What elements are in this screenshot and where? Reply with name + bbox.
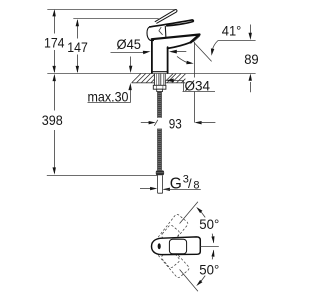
svg-text:41°: 41° (222, 23, 242, 39)
svg-text:147: 147 (67, 39, 88, 55)
deck hatch right (165, 74, 185, 83)
arc 50 lower (198, 276, 205, 285)
ref line B (top of closed lever, y=18.7) (73, 18, 158, 20)
braided hose lower (158, 129, 162, 171)
lever top view dashed upper (149, 213, 189, 257)
G3/8 right arrow (163, 188, 170, 191)
ref line A (top of raised lever, y=8.9) (47, 9, 174, 11)
G3/8 left arrow (140, 188, 151, 190)
top view group (149, 202, 220, 292)
max30 underline (88, 102, 131, 104)
flow angle arc arrow (177, 56, 191, 63)
dimension 89 top arrow (250, 25, 252, 35)
base gasket line (151, 71, 167, 73)
spout top edge (152, 35, 200, 40)
D34 underline (183, 91, 216, 93)
spout mouth inner line (193, 36, 200, 42)
deck hatch left (132, 74, 155, 83)
lever axis line (200, 246, 218, 248)
dimension 398 line (54, 76, 56, 174)
arc 50 upper (198, 209, 205, 218)
hose end fitting (156, 170, 164, 175)
spout mouth face (191, 35, 200, 43)
aerator arrow (176, 51, 186, 53)
connection tube G3/8 (158, 175, 163, 193)
aerator vertical reference (194, 42, 196, 123)
label D45 leader (111, 52, 144, 54)
braided hose upper (158, 92, 162, 118)
D34 leader (173, 81, 184, 92)
dimension 89 bottom arrow (250, 82, 252, 92)
faucet body right edge (167, 47, 169, 73)
svg-text:89: 89 (244, 51, 259, 67)
deck bottom line (132, 82, 186, 84)
raised lever (open position) (155, 10, 177, 24)
lever top view dashed lower (150, 235, 190, 279)
svg-text:174: 174 (44, 34, 65, 50)
svg-text:max.30: max.30 (88, 88, 129, 104)
max30 top arrow (130, 57, 132, 67)
closed lever (150, 20, 194, 27)
dimension 147 line (77, 20, 79, 72)
G3/8 underline (164, 189, 201, 191)
svg-text:Ø34: Ø34 (185, 77, 211, 93)
dimension 93 tick (154, 120, 158, 126)
41deg underline / ref (218, 40, 256, 42)
398 bottom reference line (47, 175, 158, 177)
svg-text:Ø45: Ø45 (117, 36, 142, 52)
svg-text:50°: 50° (199, 261, 219, 277)
svg-text:93: 93 (169, 115, 182, 131)
handle base crease (159, 27, 163, 35)
dimension 93 right arrow (194, 121, 201, 124)
handle base (147, 26, 166, 41)
svg-text:398: 398 (42, 112, 63, 128)
deck top line (47, 73, 255, 75)
dimension 93 line left (141, 122, 150, 124)
mounting nut (153, 85, 166, 89)
svg-text:/: / (188, 176, 192, 191)
dimension 174 line (54, 11, 56, 73)
shank threads (154, 74, 165, 86)
svg-text:50°: 50° (199, 216, 219, 232)
lever marker slot (158, 243, 161, 249)
shank collar (157, 89, 163, 91)
water stream line (194, 43, 212, 62)
lever window (169, 239, 186, 254)
extension line lower (180, 270, 198, 292)
lever top view solid (152, 237, 201, 255)
max30 bottom arrow (130, 90, 132, 103)
spout underside (168, 42, 191, 48)
extension line upper (180, 202, 198, 224)
faucet body left edge (151, 41, 153, 73)
41deg leader (212, 41, 218, 51)
